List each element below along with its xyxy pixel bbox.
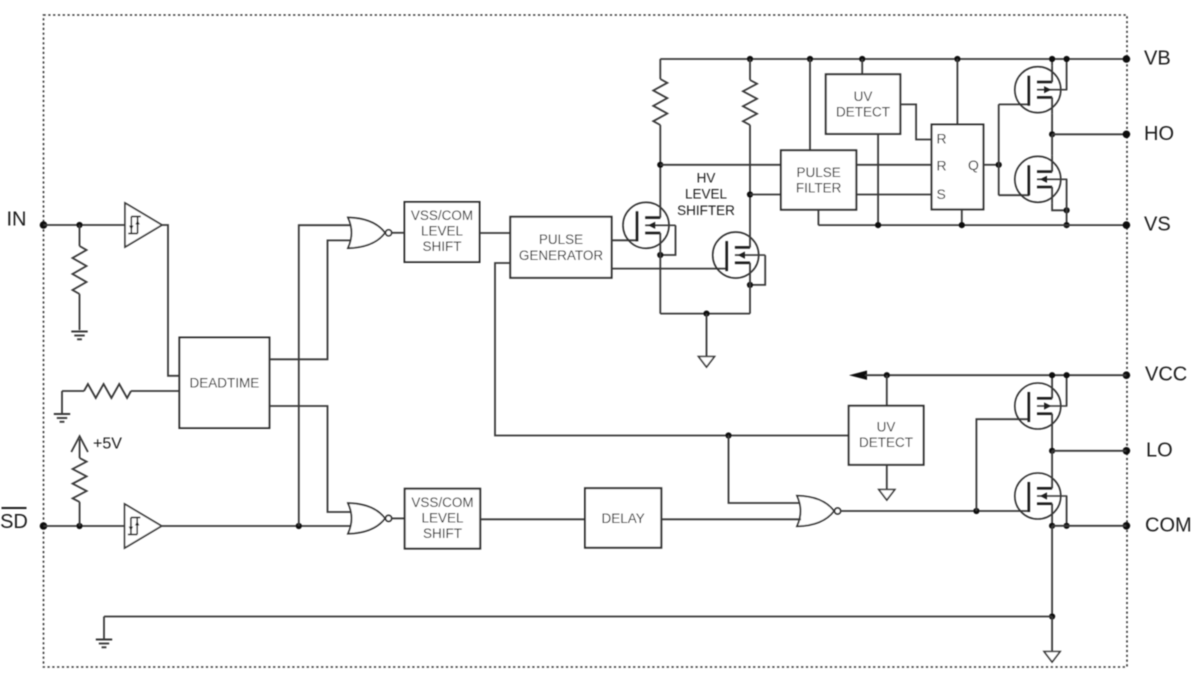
node LO [1049, 448, 1055, 454]
block PULSE FILTER [781, 150, 856, 209]
wire Q5 source to LO node [1051, 430, 1053, 451]
svg-text:S: S [937, 186, 946, 202]
wire G1 to VSS/COM level shift [392, 232, 405, 234]
resistor R1 (IN pulldown) [73, 225, 87, 330]
block UV DETECT (high side) [826, 74, 901, 134]
ground (bottom left) [96, 640, 112, 648]
wire Q6 body to COM [1066, 496, 1068, 526]
wire VCC rail [865, 374, 1126, 376]
wire Q to output driver gates [998, 104, 1000, 195]
pin VB [1123, 48, 1171, 70]
resistor R2 (deadtime set) [62, 384, 179, 398]
wire LO node to pin [1052, 450, 1126, 452]
block VSS/COM LEVEL SHIFT (low side) [405, 489, 481, 549]
wire UV DETECT to VS rail [877, 134, 879, 225]
resistor R4 (level shift load) [653, 59, 667, 165]
wire pulse generator to UV DETECT (low side) [495, 263, 849, 436]
node HO [1049, 131, 1055, 137]
transistor Q2 (level shift MOSFET) [713, 231, 766, 279]
wire junction up to Q5 gate [976, 419, 1029, 511]
transistor Q5 (LO driver, high) [1015, 382, 1068, 430]
wire level shift to DELAY [480, 518, 585, 520]
wire Q6 source to COM [1051, 520, 1053, 526]
svg-text:SHIFT: SHIFT [423, 526, 462, 541]
wire VB rail to UV DETECT [861, 59, 863, 74]
wire G3 output to driver gates [841, 510, 1030, 512]
latch U3 (RS flip-flop) [932, 125, 984, 210]
pin LO [1123, 439, 1173, 461]
svg-text:GENERATOR: GENERATOR [519, 248, 604, 263]
wire VB rail [660, 58, 1126, 60]
svg-text:DEADTIME: DEADTIME [190, 376, 260, 391]
node G3 output junction [973, 508, 979, 514]
svg-text:DETECT: DETECT [859, 435, 913, 450]
node Q junction [996, 162, 1002, 168]
wire SD line to NOR G1 top input [299, 225, 354, 526]
wire UV DETECT to latch R input [900, 104, 931, 139]
wire level shift to pulse generator [480, 232, 511, 234]
wire level shifter source rail [660, 313, 750, 315]
node COM Q6 body [1064, 523, 1070, 529]
node pulse-gen/NOR G3 junction [725, 432, 731, 438]
block PULSE GENERATOR [510, 217, 611, 278]
VCC rail arrow [849, 371, 867, 380]
wire Q3 body to VB [1066, 59, 1068, 90]
wire PULSE FILTER S output to latch [856, 194, 931, 196]
transistor Q1 (level shift MOSFET) [623, 201, 676, 249]
wire Q4 body down [1066, 179, 1068, 225]
wire Q3 drain to VB [1051, 59, 1053, 66]
wire HO node to pin [1052, 133, 1126, 135]
supply +5V arrow [71, 436, 122, 459]
node R4 bottom junction [657, 162, 663, 168]
svg-text:LEVEL: LEVEL [421, 511, 464, 526]
ground arrow (COM/VSS) [1044, 652, 1060, 663]
wire R5 to PULSE FILTER S input [750, 194, 781, 196]
node VB rail to pulse filter [807, 56, 813, 62]
wire Q2 drain to R5 [749, 195, 751, 232]
wire SD to input buffer [44, 525, 125, 527]
node Q4 source/body junction [1064, 207, 1070, 213]
wire Q1 source down [659, 249, 661, 314]
node IN junction [76, 222, 82, 228]
node VCC to Q5 drain [1049, 372, 1055, 378]
node VCC to Q5 body [1064, 372, 1070, 378]
NOR gate G2 [348, 503, 392, 534]
block UV DETECT (low side) [849, 406, 924, 465]
wire U1 output to DEADTIME [162, 225, 179, 376]
node R5 bottom junction [747, 191, 753, 197]
svg-text:SHIFTER: SHIFTER [677, 203, 735, 218]
wire junction down to NOR G3 [729, 436, 802, 504]
pin VCC [1123, 364, 1188, 386]
node source rail junction [703, 311, 709, 317]
wire Q to Q4 gate [999, 194, 1029, 196]
wire Q2 source down [749, 279, 751, 314]
node Q1 source junction [657, 252, 663, 258]
svg-text:DELAY: DELAY [602, 511, 645, 526]
node Q2 source junction [747, 282, 753, 288]
wire VCC to UV DETECT [886, 375, 888, 406]
wire latch to VS rail [961, 209, 963, 225]
transistor Q4 (HO driver, low) [1015, 155, 1068, 203]
svg-text:LO: LO [1146, 439, 1173, 461]
schmitt buffer U2 (SD) [125, 504, 162, 548]
transistor Q3 (HO driver, high) [1015, 66, 1068, 114]
ground arrow (level shifter VSS) [699, 357, 715, 368]
block VSS/COM LEVEL SHIFT (high side) [405, 202, 480, 262]
node SD line junction [296, 523, 302, 529]
wire U2 output to NOR gate G2 [162, 525, 354, 527]
pin HO [1123, 123, 1174, 145]
svg-text:IN: IN [7, 209, 27, 231]
wire PULSE FILTER to VS rail [817, 210, 819, 225]
svg-text:R: R [937, 157, 947, 173]
node VS rail junction Q4 [1064, 222, 1070, 228]
wire Q5 drain to VCC [1051, 375, 1053, 382]
wire Q output [983, 164, 998, 166]
wire G2 to VSS/COM level shift [392, 517, 405, 519]
wire DELAY to NOR G3 [661, 518, 801, 520]
svg-text:LEVEL: LEVEL [421, 223, 464, 238]
ground (deadtime resistor) [54, 391, 70, 422]
pin SD (shutdown, active low) [0, 508, 47, 533]
wire COM down to VSS line [1051, 526, 1053, 617]
resistor R5 (level shift load) [743, 59, 757, 195]
svg-text:VB: VB [1144, 48, 1171, 70]
transistor Q6 (LO driver, low) [1015, 472, 1068, 520]
schmitt buffer U1 (IN) [125, 203, 162, 247]
node VSS line junction [1049, 613, 1055, 619]
wire pulse generator to Q1 gate [612, 239, 637, 241]
svg-text:SHIFT: SHIFT [423, 239, 462, 254]
wire VSS arrow stub [1051, 617, 1053, 652]
pin IN [7, 209, 48, 231]
svg-text:FILTER: FILTER [796, 180, 842, 195]
svg-text:DETECT: DETECT [836, 105, 890, 120]
svg-text:PULSE: PULSE [796, 165, 840, 180]
wire Q1 drain to R4 [659, 165, 661, 202]
wire IN to input buffer [44, 224, 126, 226]
svg-text:HV: HV [697, 170, 716, 185]
svg-text:PULSE: PULSE [539, 232, 583, 247]
wire VSS line to ground [103, 617, 105, 640]
wire Q5 body to VCC [1066, 375, 1068, 406]
wire R4 to PULSE FILTER R input [660, 164, 781, 166]
wire VB rail to latch [956, 59, 958, 125]
ground arrow (low side UV) [879, 490, 895, 501]
wire PULSE FILTER R output to latch [856, 164, 931, 166]
wire Q3 source to HO node [1051, 114, 1053, 135]
svg-text:UV: UV [854, 89, 873, 104]
pin COM [1123, 514, 1192, 536]
resistor R3 (SD pullup) [73, 458, 87, 526]
node SD junction [76, 523, 82, 529]
svg-text:UV: UV [877, 420, 896, 435]
wire Q to Q3 gate [999, 103, 1029, 105]
wire DEADTIME top output to NOR G1 [269, 240, 354, 359]
svg-text:HO: HO [1144, 123, 1174, 145]
node VB rail to latch [954, 56, 960, 62]
wire VS rail [818, 224, 1126, 226]
svg-text:VCC: VCC [1145, 364, 1187, 386]
ground (below R1) [71, 332, 87, 340]
wire LO node to Q6 drain [1051, 451, 1053, 472]
wire VSS bottom line [104, 616, 1052, 618]
wire pulse generator to Q2 gate [612, 268, 727, 270]
label HV LEVEL SHIFTER [677, 170, 735, 218]
node VB to Q3 body [1064, 56, 1070, 62]
svg-text:VSS/COM: VSS/COM [411, 495, 473, 510]
wire VB rail to PULSE FILTER [809, 59, 811, 150]
node VB rail to UV DETECT [859, 56, 865, 62]
node VS rail latch [959, 222, 965, 228]
node VB to Q3 drain [1049, 56, 1055, 62]
svg-text:LEVEL: LEVEL [685, 187, 728, 202]
block DELAY [585, 488, 661, 548]
NOR gate G1 [348, 218, 392, 249]
svg-text:VS: VS [1144, 214, 1171, 236]
node VB rail to R5 [747, 56, 753, 62]
wire DEADTIME bottom output to NOR G2 [269, 406, 354, 512]
wire HO node to Q4 drain [1051, 134, 1053, 155]
wire junction to VSS arrow [706, 314, 708, 357]
node VS rail UV [875, 222, 881, 228]
svg-text:VSS/COM: VSS/COM [411, 208, 473, 223]
node VCC to UV DETECT [884, 372, 890, 378]
svg-text:COM: COM [1145, 514, 1192, 536]
wire Q4 source jog [1052, 203, 1067, 210]
svg-text:Q: Q [968, 157, 979, 173]
wire Q1 body loop [660, 225, 675, 255]
wire Q2 body loop [750, 255, 765, 285]
NOR gate G3 [797, 496, 841, 527]
node COM Q6 source [1049, 523, 1055, 529]
block DEADTIME [179, 338, 269, 429]
pin VS [1123, 214, 1171, 236]
svg-text:SD: SD [0, 511, 28, 533]
svg-text:R: R [937, 130, 947, 146]
svg-text:+5V: +5V [93, 436, 122, 453]
wire COM rail [1052, 525, 1126, 527]
wire UV DETECT to VSS arrow [886, 465, 888, 490]
